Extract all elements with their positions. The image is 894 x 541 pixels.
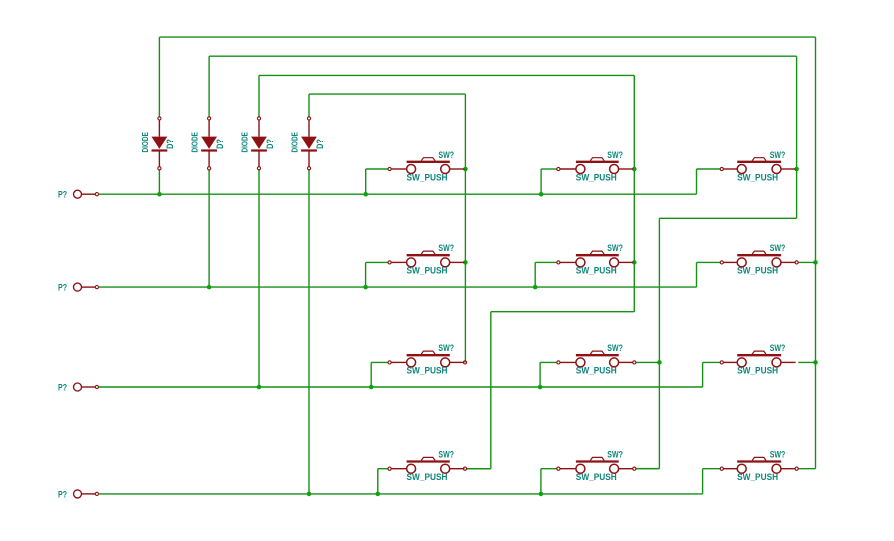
pin end left of SW? r2c2 <box>557 261 560 264</box>
port pin P? row2 <box>74 283 99 291</box>
push button SW? r1c1 <box>391 158 464 174</box>
svg-text:SW_PUSH: SW_PUSH <box>737 266 778 276</box>
junction net COL-D at SW r1c1 right pin <box>463 167 468 172</box>
pin end left of SW? r1c3 <box>720 167 723 170</box>
wire row4 net from P? to SW column 3 <box>99 469 721 494</box>
wire SW r2c1 left pin drop to row2 wire <box>366 262 389 287</box>
svg-text:SW_PUSH: SW_PUSH <box>576 472 617 482</box>
push button SW? r4c1 <box>391 457 464 473</box>
junction net COL-B at SW r1c3 right pin <box>794 167 799 172</box>
pin end left of SW? r4c3 <box>720 467 723 470</box>
port pin P? row4 <box>74 490 99 498</box>
svg-text:SW_PUSH: SW_PUSH <box>737 172 778 182</box>
pin end left of SW? r3c1 <box>388 361 391 364</box>
pin end left of SW? r1c2 <box>557 167 560 170</box>
port pin P? row3 <box>74 383 99 391</box>
wire SW r4c2 left pin drop to row4 wire <box>541 469 557 494</box>
junction net COL-B at SW r3c2 right pin <box>657 360 662 365</box>
svg-text:SW?: SW? <box>770 150 786 160</box>
svg-text:D?: D? <box>215 139 225 149</box>
svg-text:SW_PUSH: SW_PUSH <box>737 366 778 376</box>
pin end right of SW? r4c2 <box>633 467 636 470</box>
junction net COL-A at SW r2c3 right pin <box>813 260 818 265</box>
svg-text:SW_PUSH: SW_PUSH <box>407 172 448 182</box>
svg-text:DIODE: DIODE <box>241 132 250 152</box>
wire SW r3c1 left pin drop to row3 wire <box>371 362 388 387</box>
svg-text:SW?: SW? <box>438 150 454 160</box>
svg-text:SW_PUSH: SW_PUSH <box>576 266 617 276</box>
pin end right of SW? r2c3 <box>795 261 798 264</box>
pin end left of SW? r3c2 <box>557 361 560 364</box>
wire diode D? #3 cathode to row3 wire <box>258 170 260 387</box>
svg-text:SW?: SW? <box>770 343 786 353</box>
pin end left of SW? r3c3 <box>720 361 723 364</box>
svg-text:P?: P? <box>58 190 67 200</box>
junction net COL-A at SW r3c3 right pin <box>813 360 818 365</box>
junction SW r2c2 drop on row2 wire <box>533 285 538 290</box>
wire jumper SW r3c3 right pin to net COL-A <box>798 361 815 363</box>
wire SW r1c2 left pin drop to row1 wire <box>541 169 557 194</box>
svg-text:SW?: SW? <box>438 450 454 460</box>
push button SW? r1c2 <box>560 158 633 174</box>
wire diode D? #2 cathode to row2 wire <box>208 170 210 287</box>
svg-text:D?: D? <box>165 139 175 149</box>
svg-text:DIODE: DIODE <box>141 132 150 152</box>
wire jumper SW r4c2 right pin to net COL-B <box>636 468 660 470</box>
wire SW r3c2 left pin drop to row3 wire <box>540 362 557 387</box>
pin end left of SW? r2c3 <box>720 261 723 264</box>
diode D? #3 <box>251 117 267 170</box>
wire net COL-C: diode #3 anode riser, top run and zigzag <box>259 75 634 468</box>
svg-text:SW_PUSH: SW_PUSH <box>407 472 448 482</box>
svg-text:P?: P? <box>58 489 67 499</box>
junction diode D? #4 on row4 wire <box>307 492 312 497</box>
junction diode D? #2 on row2 wire <box>207 285 212 290</box>
pin end left of SW? r2c1 <box>388 261 391 264</box>
push button SW? r2c1 <box>391 251 464 267</box>
svg-text:P?: P? <box>58 382 67 392</box>
svg-text:SW?: SW? <box>770 243 786 253</box>
wire diode D? #1 cathode to row1 wire <box>158 170 160 194</box>
wire net COL-D: diode #4 anode riser and top run <box>309 94 465 362</box>
diode D? #4 <box>301 117 317 170</box>
push button SW? r3c2 <box>560 351 633 367</box>
port pin P? row1 <box>74 190 99 198</box>
diode D? #1 <box>152 117 168 170</box>
svg-text:SW_PUSH: SW_PUSH <box>737 472 778 482</box>
wire jumper SW r3c2 right pin to net COL-B <box>636 361 660 363</box>
wire jumper SW r4c1 right pin to net COL-C <box>466 468 490 470</box>
wire diode D? #4 cathode to row4 wire <box>308 170 310 494</box>
pin end right of SW? r4c3 <box>795 467 798 470</box>
junction net COL-D at SW r2c1 right pin <box>463 260 468 265</box>
junction SW r3c1 drop on row3 wire <box>369 385 374 390</box>
push button SW? r2c3 <box>723 251 795 267</box>
wire jumper SW r2c3 right pin to net COL-A <box>798 261 815 263</box>
push button SW? r4c2 <box>560 457 633 473</box>
wire net COL-A: diode #1 anode riser and top run <box>159 37 815 469</box>
pin end left of SW? r4c1 <box>388 467 391 470</box>
svg-text:D?: D? <box>265 139 275 149</box>
svg-text:SW?: SW? <box>438 343 454 353</box>
junction net COL-C at SW r2c2 right pin <box>632 260 637 265</box>
junction SW r2c1 drop on row2 wire <box>363 285 368 290</box>
wire SW r2c2 left pin drop to row2 wire <box>535 262 557 287</box>
junction SW r1c2 drop on row1 wire <box>539 192 544 197</box>
wire SW r1c1 left pin drop to row1 wire <box>366 169 389 194</box>
junction net COL-C at SW r1c2 right pin <box>632 167 637 172</box>
svg-text:SW?: SW? <box>607 243 623 253</box>
push button SW? r1c3 <box>723 158 795 174</box>
pin end left of SW? r4c2 <box>557 467 560 470</box>
push button SW? r4c3 <box>723 457 795 473</box>
junction SW r4c2 drop on row4 wire <box>539 492 544 497</box>
diode D? #2 <box>201 117 217 170</box>
svg-text:SW_PUSH: SW_PUSH <box>407 366 448 376</box>
junction diode D? #1 on row1 wire <box>157 192 162 197</box>
wire row3 net from P? to SW column 3 <box>99 362 721 387</box>
svg-text:SW_PUSH: SW_PUSH <box>576 172 617 182</box>
junction diode D? #3 on row3 wire <box>257 385 262 390</box>
pin end right of SW? r3c1 <box>463 361 466 364</box>
push button SW? r3c3 <box>723 351 795 367</box>
svg-text:SW_PUSH: SW_PUSH <box>576 366 617 376</box>
wire net COL-B: diode #2 anode riser, top run and zigzag <box>209 56 797 468</box>
junction SW r4c1 drop on row4 wire <box>376 492 381 497</box>
svg-text:SW?: SW? <box>438 243 454 253</box>
pin end left of SW? r1c1 <box>388 167 391 170</box>
junction SW r3c2 drop on row3 wire <box>538 385 543 390</box>
wire SW r4c1 left pin drop to row4 wire <box>378 469 388 494</box>
svg-text:SW?: SW? <box>607 150 623 160</box>
svg-text:SW?: SW? <box>607 450 623 460</box>
svg-text:SW?: SW? <box>770 450 786 460</box>
pin end right of SW? r3c2 <box>633 361 636 364</box>
push button SW? r2c2 <box>560 251 633 267</box>
wire row2 net from P? to SW column 3 <box>99 262 721 287</box>
push button SW? r3c1 <box>391 351 464 367</box>
svg-text:DIODE: DIODE <box>291 132 300 152</box>
svg-text:DIODE: DIODE <box>191 132 200 152</box>
junction SW r1c1 drop on row1 wire <box>363 192 368 197</box>
svg-text:SW?: SW? <box>607 343 623 353</box>
svg-text:SW_PUSH: SW_PUSH <box>407 266 448 276</box>
svg-text:D?: D? <box>315 139 325 149</box>
svg-text:P?: P? <box>58 283 67 293</box>
pin end right of SW? r4c1 <box>463 467 466 470</box>
wire row1 net from P? to SW column 3 <box>99 169 721 194</box>
